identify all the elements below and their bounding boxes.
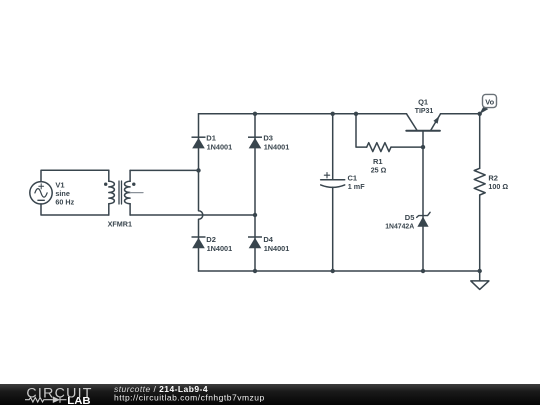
svg-text:25 Ω: 25 Ω [371, 165, 387, 174]
svg-text:http://circuitlab.com/cfnhgtb7: http://circuitlab.com/cfnhgtb7vmzup [114, 393, 265, 403]
svg-text:XFMR1: XFMR1 [108, 220, 132, 229]
svg-text:100 Ω: 100 Ω [488, 182, 508, 191]
svg-text:60 Hz: 60 Hz [55, 198, 74, 207]
svg-text:1N4742A: 1N4742A [385, 221, 415, 230]
svg-text:1N4001: 1N4001 [207, 244, 233, 253]
svg-text:TIP31: TIP31 [415, 106, 434, 115]
svg-text:D2: D2 [206, 235, 216, 244]
svg-text:D3: D3 [263, 134, 273, 143]
svg-text:1N4001: 1N4001 [207, 142, 233, 151]
svg-text:sine: sine [55, 189, 70, 198]
svg-text:1 mF: 1 mF [348, 182, 365, 191]
svg-text:D4: D4 [263, 235, 273, 244]
svg-text:1N4001: 1N4001 [264, 244, 290, 253]
svg-text:D1: D1 [206, 134, 216, 143]
svg-text:C1: C1 [348, 173, 358, 182]
svg-text:1N4001: 1N4001 [264, 142, 290, 151]
svg-text:Vo: Vo [485, 97, 495, 106]
svg-text:LAB: LAB [67, 395, 91, 405]
